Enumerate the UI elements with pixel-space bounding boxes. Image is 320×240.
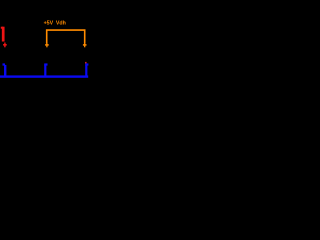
stub 3 vertical	[85, 65, 87, 77]
stub 2 vertical	[44, 65, 46, 76]
svg-text:Vdh: Vdh	[56, 21, 66, 27]
wire red vertical drop	[2, 27, 5, 42]
stub 3 red cap	[85, 62, 87, 64]
svg-text:+5V: +5V	[44, 21, 54, 27]
ground bus blue	[0, 75, 88, 77]
stub 1 hook	[3, 63, 6, 65]
stub 3 hook	[85, 63, 88, 65]
stub 1 vertical	[4, 65, 6, 76]
pin arrow orange left terminal	[45, 43, 49, 48]
wire red supply from left edge	[1, 27, 3, 29]
pin arrow orange right terminal	[83, 43, 87, 48]
stub 2 hook	[44, 63, 47, 65]
pin arrow red terminal	[3, 43, 7, 48]
wire orange bracket	[47, 30, 85, 44]
